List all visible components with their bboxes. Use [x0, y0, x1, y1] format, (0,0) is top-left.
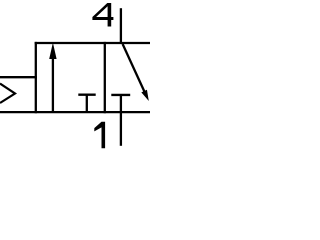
blocked port T stem + port 1 connection line	[120, 95, 122, 146]
position divider	[104, 42, 106, 113]
exhaust diagonal line (right position)	[123, 44, 145, 92]
flow arrow stem (left position)	[52, 56, 54, 112]
exhaust diagonal arrow head	[141, 90, 148, 101]
pilot triangle	[0, 84, 15, 104]
port label 4	[92, 3, 113, 27]
valve body top edge	[35, 42, 150, 44]
blocked port T bar (right position)	[111, 94, 130, 96]
valve body left edge	[35, 42, 37, 113]
flow arrow head (left position)	[49, 43, 56, 59]
port label 1	[94, 122, 105, 148]
port 4 connection line	[120, 8, 122, 43]
blocked port T stem (left position)	[86, 95, 88, 112]
valve body bottom edge	[0, 111, 150, 113]
pilot box top line	[0, 76, 37, 78]
blocked port T bar (left position)	[78, 93, 95, 95]
